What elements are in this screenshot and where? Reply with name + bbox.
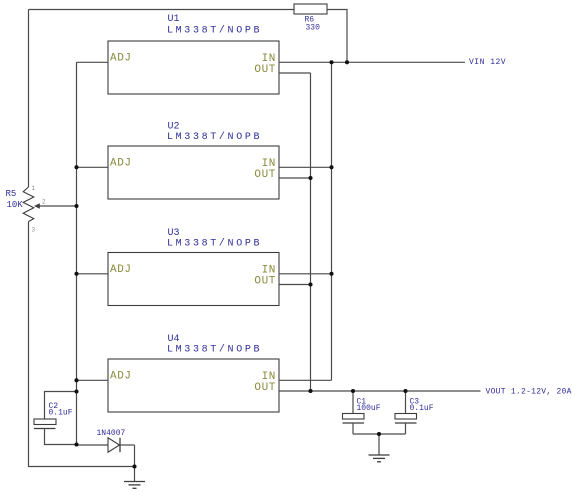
svg-text:0.1uF: 0.1uF bbox=[410, 404, 434, 413]
junction dot C2 bottom / diode anode bbox=[74, 442, 78, 446]
wire U4 OUT pin / VOUT line bbox=[279, 390, 481, 392]
U4 pin name OUT bbox=[254, 382, 276, 394]
wire to ground bottom-right bbox=[378, 434, 380, 455]
svg-text:IN: IN bbox=[262, 53, 276, 65]
label U2 refdes bbox=[168, 121, 180, 132]
U1 pin name OUT bbox=[254, 64, 276, 76]
label C2 refdes bbox=[49, 402, 59, 411]
pin number 2 of R5 bbox=[42, 199, 46, 206]
U2 pin name IN bbox=[262, 158, 276, 170]
svg-text:ADJ: ADJ bbox=[110, 52, 132, 64]
label net VOUT 1.2-12V, 20A bbox=[486, 388, 572, 397]
svg-text:LM338T/NOPB: LM338T/NOPB bbox=[167, 344, 262, 356]
svg-text:3: 3 bbox=[32, 227, 36, 234]
junction dot C2 top bbox=[74, 389, 78, 393]
svg-text:VOUT 1.2-12V, 20A: VOUT 1.2-12V, 20A bbox=[486, 388, 572, 397]
wire U4 IN pin to IN bus bbox=[279, 379, 332, 381]
svg-text:U2: U2 bbox=[168, 121, 180, 132]
svg-text:OUT: OUT bbox=[254, 169, 276, 181]
wire left rail upper (x=28.5 from top corner to R5) bbox=[28, 10, 30, 188]
svg-text:ADJ: ADJ bbox=[110, 370, 132, 382]
wire top horizontal from left rail to R6 bbox=[29, 9, 295, 11]
wire U2 IN pin to IN bus bbox=[279, 166, 332, 168]
svg-text:2: 2 bbox=[42, 199, 46, 206]
IN bus vertical wire bbox=[331, 62, 333, 380]
label R6 value 330 bbox=[306, 24, 321, 33]
svg-text:100uF: 100uF bbox=[357, 404, 381, 413]
junction dot U3 ADJ bbox=[74, 272, 78, 276]
pin number 3 of R5 bbox=[32, 227, 36, 234]
svg-text:330: 330 bbox=[306, 24, 321, 33]
label R5 value 10K bbox=[7, 200, 24, 210]
regulator U1 box bbox=[108, 41, 279, 94]
label R6 refdes bbox=[305, 16, 315, 25]
junction dot C1 at VOUT bbox=[351, 389, 355, 393]
svg-text:U4: U4 bbox=[168, 334, 180, 345]
svg-text:10K: 10K bbox=[7, 200, 24, 210]
label U1 refdes bbox=[168, 14, 180, 25]
pin number 1 of R5 bbox=[32, 185, 36, 192]
label U3 value LM338T/NOPB bbox=[167, 237, 262, 249]
diode D1 1N4007 bbox=[77, 438, 135, 452]
svg-text:U1: U1 bbox=[168, 14, 180, 25]
svg-text:OUT: OUT bbox=[254, 382, 276, 394]
label C1 refdes bbox=[357, 398, 367, 407]
junction dot U2 OUT bbox=[308, 176, 312, 180]
junction dot caps ground bbox=[377, 432, 381, 436]
wire left rail lower (R5 bottom to bottom corner, then right to ground node) bbox=[29, 222, 135, 467]
label U4 value LM338T/NOPB bbox=[167, 344, 262, 356]
potentiometer R5 zigzag body bbox=[23, 187, 34, 222]
svg-text:OUT: OUT bbox=[254, 64, 276, 76]
regulator U3 box bbox=[108, 253, 279, 306]
junction dot node VIN at IN bus bbox=[329, 60, 333, 64]
junction dot bottom ground node bbox=[132, 464, 136, 468]
svg-text:IN: IN bbox=[262, 264, 276, 276]
U1 pin name ADJ bbox=[110, 52, 132, 64]
wire U1 OUT pin to OUT bus bbox=[279, 72, 311, 74]
svg-text:LM338T/NOPB: LM338T/NOPB bbox=[167, 24, 262, 36]
svg-text:IN: IN bbox=[262, 371, 276, 383]
U3 pin name ADJ bbox=[110, 264, 132, 276]
label R5 refdes bbox=[6, 189, 17, 199]
label U1 value LM338T/NOPB bbox=[167, 24, 262, 36]
U4 pin name IN bbox=[262, 371, 276, 383]
svg-text:1: 1 bbox=[32, 185, 36, 192]
junction dot node VIN at R6 drop bbox=[345, 60, 349, 64]
ground symbol bottom-right bbox=[369, 455, 390, 462]
svg-text:OUT: OUT bbox=[254, 276, 276, 288]
capacitor C1 bbox=[343, 391, 365, 434]
U3 pin name IN bbox=[262, 264, 276, 276]
svg-text:LM338T/NOPB: LM338T/NOPB bbox=[167, 131, 262, 143]
wire C1/C3 bottom connector bbox=[353, 433, 406, 435]
junction dot U2 IN bbox=[329, 165, 333, 169]
capacitor C2 bbox=[34, 392, 77, 445]
svg-text:1N4007: 1N4007 bbox=[97, 429, 126, 438]
wire diode cathode down to ground node bbox=[134, 445, 136, 482]
wire R6 right to VIN drop bbox=[327, 10, 347, 63]
junction dot U4 ADJ bbox=[74, 378, 78, 382]
label C3 value 0.1uF bbox=[410, 404, 434, 413]
label U2 value LM338T/NOPB bbox=[167, 131, 262, 143]
regulator U2 box bbox=[108, 146, 279, 199]
label U4 refdes bbox=[168, 334, 180, 345]
U4 pin name ADJ bbox=[110, 370, 132, 382]
wire U1 ADJ pin to ADJ bus bbox=[77, 61, 109, 63]
wire U1 IN pin / VIN line bbox=[279, 61, 465, 63]
ADJ bus vertical wire bbox=[76, 62, 78, 444]
svg-text:U3: U3 bbox=[168, 228, 180, 239]
svg-text:ADJ: ADJ bbox=[110, 264, 132, 276]
resistor R6 bbox=[294, 4, 327, 14]
wire U3 OUT pin to OUT bus bbox=[279, 284, 311, 286]
ground symbol bottom-left bbox=[124, 482, 145, 489]
svg-text:LM338T/NOPB: LM338T/NOPB bbox=[167, 237, 262, 249]
wire U2 OUT pin to OUT bus bbox=[279, 177, 311, 179]
svg-text:ADJ: ADJ bbox=[110, 157, 132, 169]
junction dot OUT bus at VOUT bbox=[308, 389, 312, 393]
regulator U4 box bbox=[108, 359, 279, 412]
junction dot C3 at VOUT bbox=[403, 389, 407, 393]
label net VIN 12V bbox=[469, 58, 506, 67]
OUT bus vertical wire bbox=[310, 73, 312, 391]
wire U3 ADJ pin to ADJ bus bbox=[77, 273, 109, 275]
svg-text:VIN 12V: VIN 12V bbox=[469, 58, 506, 67]
U2 pin name OUT bbox=[254, 169, 276, 181]
svg-text:R5: R5 bbox=[6, 189, 17, 199]
junction dot U3 IN bbox=[329, 272, 333, 276]
label C3 refdes bbox=[410, 398, 420, 407]
wire U2 ADJ pin to ADJ bus bbox=[77, 166, 109, 168]
junction dot U2 ADJ bbox=[74, 165, 78, 169]
U1 pin name IN bbox=[262, 53, 276, 65]
U2 pin name ADJ bbox=[110, 157, 132, 169]
junction dot U3 OUT bbox=[308, 282, 312, 286]
junction dot R5 wiper bbox=[74, 204, 78, 208]
R5 wiper arrow bbox=[34, 203, 77, 209]
U3 pin name OUT bbox=[254, 276, 276, 288]
capacitor C3 bbox=[395, 391, 417, 434]
wire U4 ADJ pin to ADJ bus bbox=[77, 379, 109, 381]
label U3 refdes bbox=[168, 228, 180, 239]
label C2 value 0.1uF bbox=[49, 409, 73, 418]
wire U3 IN pin to IN bus bbox=[279, 273, 332, 275]
label C1 value 100uF bbox=[357, 404, 381, 413]
svg-text:IN: IN bbox=[262, 158, 276, 170]
label D1 value 1N4007 bbox=[97, 429, 126, 438]
svg-text:0.1uF: 0.1uF bbox=[49, 409, 73, 418]
